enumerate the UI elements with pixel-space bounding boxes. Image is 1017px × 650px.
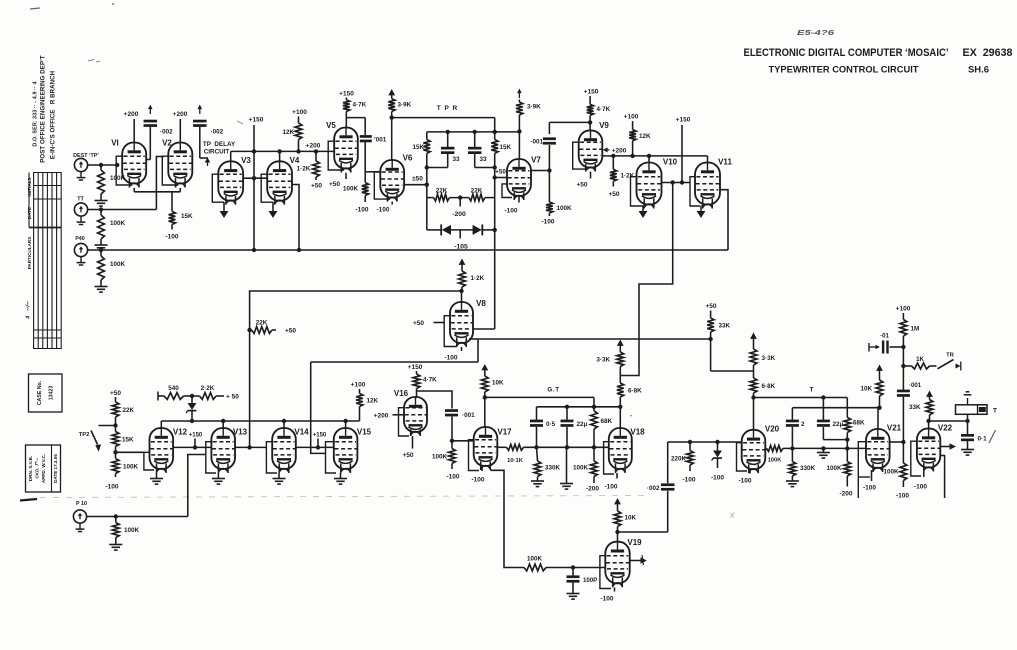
svg-text:T: T: [810, 387, 814, 394]
wire: anode rail V3 V4 to V5 grid (+200): [231, 149, 335, 161]
ground (P10 terminal): [0, 0, 1, 1]
wire: V3-V4 grid couple: [243, 177, 267, 179]
wire: V12-V15 anode rail: [161, 419, 359, 428]
svg-text:100K: 100K: [768, 458, 783, 464]
capacitor -001 (V7/V9 coupling): [530, 122, 556, 170]
svg-text:TR: TR: [946, 353, 955, 359]
tube V12: [150, 428, 188, 474]
svg-text:1K: 1K: [916, 356, 924, 363]
svg-text:-100: -100: [600, 596, 613, 603]
svg-text:3·9K: 3·9K: [527, 104, 541, 111]
svg-text:V5: V5: [326, 121, 336, 130]
capacitor -002 (V1 anode decoupling): [144, 105, 174, 160]
svg-text:540: 540: [168, 385, 179, 392]
svg-text:15K: 15K: [500, 144, 512, 151]
resistor 100K (T ladder to -200): [826, 448, 852, 497]
grid bracket V4: [261, 174, 273, 202]
svg-text:100K: 100K: [110, 220, 126, 227]
svg-text:100K: 100K: [123, 464, 139, 471]
wire: V11 output down to P40 bus: [720, 190, 728, 250]
label -100 (V21 cathode): [863, 470, 876, 492]
capacitor 2 (T ladder): [786, 408, 805, 449]
label -100 (V22 cathode): [914, 472, 927, 491]
TPR bottom rail with diodes: [427, 228, 497, 239]
resistor 12K (from +100, V15 anode rail): [351, 382, 379, 422]
svg-text:1·2K: 1·2K: [297, 166, 311, 173]
svg-text:+200: +200: [173, 111, 188, 118]
svg-text:100K: 100K: [432, 454, 448, 461]
svg-text:+50: +50: [413, 320, 424, 327]
svg-text:CASE No.: CASE No.: [37, 380, 43, 405]
resistor 1M: [900, 320, 919, 348]
ground (V12 cathode): [150, 473, 163, 484]
svg-text:4·7K: 4·7K: [353, 102, 367, 109]
svg-text:D.O. SER. 333 ·· - 4.9 ·· 4: D.O. SER. 333 ·· - 4.9 ·· 4: [33, 81, 39, 146]
resistor 6-8K (right divider): [750, 371, 776, 400]
ground arrow (V10 cathode): [639, 206, 648, 219]
label G.T: [547, 387, 559, 394]
ground (22u return): [560, 484, 573, 490]
svg-text:±50: ±50: [412, 176, 423, 183]
svg-text:CKD. 𝑇′′∼: CKD. 𝑇′′∼: [35, 458, 40, 479]
resistor 4-7K (V5 anode): [339, 91, 366, 118]
svg-text:’001: ’001: [374, 137, 387, 144]
resistor 4-7K (V9 anode): [584, 89, 611, 131]
svg-text:V2: V2: [162, 139, 172, 148]
svg-text:+50: +50: [311, 183, 322, 190]
resistor 22K to +50 (tap): [247, 320, 296, 335]
svg-text:·002: ·002: [160, 129, 173, 136]
svg-text:P40: P40: [75, 236, 85, 242]
label -100 (15K return): [165, 234, 178, 241]
grid bracket V18: [604, 442, 614, 474]
diode (pulse clamp): [186, 396, 196, 421]
svg-text:-100: -100: [165, 234, 178, 241]
svg-text:-100: -100: [863, 485, 876, 492]
label -100 (V20 cathode): [738, 470, 751, 485]
label -105 (TPR return): [454, 244, 468, 251]
svg-text:10K: 10K: [625, 515, 637, 522]
svg-text:+100: +100: [896, 306, 911, 313]
tube V7: [507, 156, 541, 201]
label +200 (interstage): [306, 143, 321, 150]
grid bracket V10: [631, 177, 644, 206]
output arrow (V19): [630, 555, 647, 565]
svg-text:G.T: G.T: [547, 387, 559, 394]
svg-text:+150: +150: [313, 433, 327, 439]
svg-text:-100: -100: [682, 477, 695, 484]
tube V19: [605, 538, 642, 587]
svg-text:V15: V15: [357, 428, 372, 437]
resistor 1K and switch TR: [901, 353, 961, 371]
svg-text:CIRCUIT: CIRCUIT: [204, 149, 230, 156]
resistor 100K (P40 load): [98, 250, 126, 286]
svg-text:V17: V17: [497, 428, 512, 437]
svg-text:10·1K: 10·1K: [507, 458, 524, 464]
label +200 with arrow (V9 grid): [603, 147, 627, 154]
svg-text:V13: V13: [233, 428, 248, 437]
label -100 (V8 cathode): [444, 347, 461, 362]
capacitor 22u (G.T): [561, 407, 588, 448]
svg-text:VI: VI: [111, 139, 119, 148]
grid bracket V7: [502, 184, 512, 198]
svg-text:TP DELAY: TP DELAY: [203, 141, 236, 148]
svg-text:+50: +50: [402, 452, 413, 459]
svg-text:+50: +50: [495, 169, 506, 176]
wire: TT input to V2 grid: [88, 157, 164, 212]
tube V1: [111, 139, 146, 188]
svg-text:100K: 100K: [527, 556, 543, 563]
svg-text:2·2K: 2·2K: [201, 385, 215, 392]
svg-text:APPD. W.V.C.: APPD. W.V.C.: [41, 454, 46, 483]
TPR left rail: [426, 132, 428, 230]
svg-text:12K: 12K: [282, 129, 294, 136]
diode (V20 grid clamp): [711, 442, 724, 482]
ground (V13 cathode): [212, 473, 225, 484]
resistor 15K (V1/V2 cathode): [169, 211, 193, 229]
grid bracket V12: [144, 452, 154, 470]
label: TP DELAY CIRCUIT with arrow: [203, 141, 236, 166]
resistor 1-2K (V9 output divider): [608, 156, 634, 198]
svg-text:+150: +150: [249, 117, 264, 124]
svg-text:·002: ·002: [647, 485, 660, 492]
tube V14: [272, 428, 309, 474]
svg-text:33: 33: [480, 156, 488, 163]
label -100 (V6 cathode): [376, 202, 392, 214]
wire: V20 anode rail east: [754, 395, 848, 399]
svg-text:-100: -100: [738, 478, 751, 485]
grid bracket V14: [266, 442, 277, 473]
wire: V20-V21 grid line with series resistor: [765, 445, 866, 463]
grid bracket V9: [573, 142, 589, 169]
svg-text:+200: +200: [374, 412, 389, 419]
wire: DEST input to V1 grid: [88, 163, 120, 167]
resistor 100K (V17 grid leak): [432, 449, 460, 481]
svg-text:+100: +100: [292, 109, 307, 116]
svg-text:4 ∼𝑓∼: 4 ∼𝑓∼: [26, 301, 32, 320]
svg-text:V9: V9: [599, 121, 609, 130]
grid bracket V1: [116, 156, 132, 185]
svg-text:TYPEWRITER CONTROL CIRCUIT: TYPEWRITER CONTROL CIRCUIT: [769, 65, 920, 75]
wire: V10 output down to 3-3K node: [620, 183, 672, 376]
capacitor 22u (T ladder): [817, 398, 847, 440]
svg-text:-200: -200: [452, 211, 466, 218]
svg-text:V19: V19: [627, 538, 642, 547]
title: main title text: [744, 47, 1013, 59]
resistor 100K (DEST load): [98, 165, 126, 200]
wire: V21 grid stub: [890, 440, 906, 444]
wire: V22 anode lead: [928, 421, 930, 429]
svg-text:+150: +150: [408, 364, 423, 371]
grid bracket V11: [690, 177, 700, 206]
svg-text:10K: 10K: [492, 380, 504, 387]
svg-text:V22: V22: [938, 424, 953, 433]
svg-text:+200: +200: [124, 111, 139, 118]
svg-text:+50: +50: [329, 181, 340, 188]
svg-text:INITIALS: INITIALS: [27, 177, 32, 196]
terminal DEST 'TP': [73, 153, 99, 180]
svg-text:15K: 15K: [412, 144, 424, 151]
svg-text:-100: -100: [541, 219, 554, 226]
resistor 100K (V7 grid leak): [541, 171, 572, 226]
capacitor -002 (V19-V20 coupling): [647, 483, 675, 492]
resistor 15K (TPR left): [412, 140, 430, 154]
svg-text:TT: TT: [77, 197, 84, 203]
label +50 (V16 cathode): [402, 436, 413, 459]
revision table header: DATE (rotated): [27, 207, 32, 219]
resistor 100K (TT load): [98, 210, 126, 245]
svg-text:V6: V6: [403, 154, 413, 163]
title: drawing number handwritten: [797, 28, 835, 37]
capacitor 100P (V19 grid): [567, 568, 598, 594]
revision table header: PARTICULARS (rotated): [27, 237, 32, 270]
drawing office box (DRN/CKD/APPD/DATE): [26, 445, 61, 492]
ground (V14 cathode): [273, 473, 286, 484]
resistor 3-3K (left divider): [596, 340, 623, 376]
capacitor '001 (V5-V6 coupling): [360, 135, 387, 143]
margin note: E-IN-C'S OFFICE R BRANCH (rotated): [50, 71, 57, 159]
grid bracket V19: [600, 556, 611, 589]
svg-text:+50: +50: [705, 303, 716, 310]
wire: TP2 node to V12 grid: [116, 451, 144, 453]
label TPR: [437, 105, 459, 112]
capacitor 33 (TPR right): [468, 132, 497, 170]
svg-text:+200: +200: [612, 147, 627, 154]
wire: V4 output down to P40 bus: [292, 185, 300, 251]
capacitor 33 (TPR left): [425, 132, 460, 170]
svg-text:-100: -100: [914, 484, 927, 491]
resistor 3-9K (V6 anode): [388, 89, 411, 160]
wire: coupling node to V6 grid: [365, 142, 380, 183]
resistor 100K (V6 grid leak): [343, 183, 369, 214]
resistor 6-8K (left divider): [617, 376, 642, 429]
svg-text:100K: 100K: [124, 527, 140, 534]
svg-text:22K: 22K: [436, 187, 448, 194]
svg-text:-100: -100: [711, 475, 724, 482]
switch TP2: [79, 426, 116, 452]
supply +200 (V1 anode): [124, 111, 139, 143]
resistor 10K (V19 anode): [614, 498, 636, 542]
svg-text:22K: 22K: [471, 187, 483, 194]
wire: V7 grid to coupling node: [531, 168, 552, 172]
tube V8: [450, 299, 486, 347]
wire: V17 anode lead and G.T rail: [483, 395, 594, 427]
resistor 100K (TP2 chain): [105, 452, 138, 490]
wire +50 into V8 grid: [413, 320, 444, 327]
svg-text:ELECTRONIC DIGITAL COMPUTER ‘M: ELECTRONIC DIGITAL COMPUTER ‘MOSAIC’: [744, 47, 949, 59]
resistor 22K (TPR left arm): [427, 187, 450, 201]
svg-text:SH.6: SH.6: [968, 65, 989, 75]
stray pencil mark: [731, 513, 735, 519]
svg-text:-200: -200: [586, 486, 599, 493]
grid bracket V3: [212, 174, 224, 202]
svg-text:+150: +150: [676, 117, 691, 124]
svg-text:15K: 15K: [122, 437, 134, 444]
resistor 68K (G.T): [591, 407, 613, 448]
svg-text:+50: +50: [285, 328, 296, 335]
svg-text:T: T: [993, 408, 997, 415]
svg-text:-100: -100: [471, 477, 484, 484]
label +50 (V9 cathode): [576, 172, 590, 189]
svg-text:+100: +100: [624, 114, 639, 121]
svg-text:-100: -100: [105, 484, 118, 491]
resistor 22K (TPR right arm): [450, 187, 495, 206]
resistor 15K (TP2 chain): [112, 426, 134, 455]
label +50 (V5 cathode): [329, 173, 346, 188]
svg-text:-100: -100: [376, 207, 389, 214]
svg-text:12K: 12K: [639, 133, 651, 140]
wire: V19 anode to coupling cap: [618, 491, 668, 532]
svg-text:100K: 100K: [557, 205, 573, 212]
resistor 68K (T ladder): [844, 398, 865, 449]
svg-text:-100: -100: [604, 484, 617, 491]
svg-text:V14: V14: [294, 428, 309, 437]
svg-text:330K: 330K: [800, 465, 816, 472]
svg-text:·001: ·001: [909, 382, 922, 389]
svg-text:DEST ‘TP’: DEST ‘TP’: [73, 153, 99, 159]
svg-text:22μ: 22μ: [577, 421, 588, 428]
svg-text:1M: 1M: [911, 326, 920, 333]
supply +200 (V2 anode): [173, 111, 188, 143]
ground (100P): [567, 594, 580, 600]
svg-text:33: 33: [453, 156, 461, 163]
svg-text:0·1: 0·1: [978, 436, 988, 443]
svg-text:V11: V11: [718, 158, 732, 167]
delay line T box: [956, 405, 998, 421]
tube V6: [380, 154, 413, 202]
svg-text:-100: -100: [444, 355, 457, 362]
tube V9: [579, 121, 610, 172]
svg-text:V18: V18: [630, 428, 645, 437]
resistor 220K (V20 grid leak): [671, 442, 696, 484]
paper crease line: [20, 496, 648, 501]
grid bracket V22: [911, 441, 921, 476]
wire: P10 to V13 grid: [87, 455, 206, 519]
tube V13: [211, 428, 247, 474]
resistor 4-7K (V16 anode): [408, 364, 437, 397]
ground (TT load): [95, 245, 108, 251]
label -100 (V19 cathode): [600, 588, 614, 603]
svg-text:+150: +150: [339, 91, 354, 98]
svg-text:100K: 100K: [573, 465, 589, 472]
tube V17: [474, 427, 512, 470]
pencil slash mark: [989, 430, 996, 443]
resistor 1-2K (V5 grid leak): [297, 151, 323, 189]
svg-text:V12: V12: [173, 428, 188, 437]
resistor 10K (V21 anode): [860, 365, 882, 408]
capacitor -001 (V21 anode): [897, 347, 922, 442]
svg-text:100K: 100K: [883, 469, 899, 476]
wire: V17-V18 grid line with series resistor: [497, 444, 609, 464]
svg-text:EX 29638: EX 29638: [963, 47, 1013, 59]
resistor 33K (from +50): [705, 303, 730, 339]
svg-text:22K: 22K: [123, 407, 135, 414]
svg-text:V7: V7: [531, 156, 541, 165]
grid bracket V17: [469, 440, 480, 471]
wire: 22u return to ground: [566, 447, 568, 483]
terminal P10: [73, 501, 87, 532]
wire: V9 output rail to V10/V11 anodes: [602, 154, 707, 158]
diode (TPR right, pointing right): [473, 224, 483, 235]
svg-text:·001: ·001: [530, 139, 543, 146]
resistor 3-3K (right divider): [750, 333, 776, 372]
resistor 540 (pulse network): [158, 385, 200, 401]
grid bracket V13: [206, 442, 216, 473]
case number box: [29, 374, 63, 412]
revision table grid: [29, 172, 61, 349]
terminal TT: [74, 197, 87, 225]
wire: V8 anode lead: [461, 291, 463, 302]
resistor 330K (T ladder to ground): [789, 448, 816, 480]
svg-text:V10: V10: [663, 158, 678, 167]
svg-text:68K: 68K: [601, 418, 613, 425]
label -100 (V18 cathode): [604, 473, 617, 491]
revision table header: INITIALS (rotated): [27, 177, 32, 196]
svg-text:-100: -100: [504, 208, 517, 215]
svg-text:E5-4?6: E5-4?6: [797, 28, 835, 37]
wire: V6 output to TPR left rail: [404, 183, 429, 187]
wire: V5 anode node to coupling cap: [346, 118, 365, 136]
svg-text:+150: +150: [584, 89, 599, 96]
ground arrow (V4 cathode): [269, 202, 278, 218]
margin note: POST OFFICE ENGINEERING DEPT (rotated): [40, 55, 47, 163]
grid bracket V20: [737, 443, 748, 471]
svg-text:15K: 15K: [181, 213, 193, 220]
svg-text:-100: -100: [355, 207, 368, 214]
wire: branch down to V15 grid: [311, 362, 326, 453]
svg-text:100P: 100P: [583, 577, 597, 584]
wire: coupling top to V9 anode: [549, 121, 590, 123]
wire: +50 into V7 from TPR rail: [493, 169, 508, 180]
svg-text:-200: -200: [839, 491, 852, 498]
tube V10: [637, 158, 678, 209]
svg-text:·002: ·002: [211, 129, 224, 136]
margin note: issue number (rotated): [26, 301, 32, 320]
svg-text:22K: 22K: [256, 320, 268, 327]
grid bracket V21: [858, 442, 870, 498]
ground arrow (V3 cathode): [220, 202, 229, 218]
svg-text:68K: 68K: [853, 420, 865, 427]
wire: V14-V15 grid couple with +150 tap: [296, 433, 334, 450]
svg-text:10K: 10K: [860, 386, 872, 393]
capacitor 0-1 (output): [961, 421, 987, 449]
tube V2: [162, 139, 192, 188]
svg-text:+150: +150: [189, 433, 203, 439]
wire: coupling cap up to V20 grid line: [668, 440, 743, 483]
wire: G.T ladder top rail: [537, 405, 621, 409]
terminal P40: [74, 236, 87, 265]
label T (rail): [810, 387, 814, 394]
wire: V16 anode to coupling cap: [417, 391, 453, 409]
tube V15: [334, 428, 372, 474]
svg-text:22μ: 22μ: [833, 421, 844, 428]
wire: V10-V11 grid couple: [662, 180, 691, 184]
grid bracket V8: [444, 316, 457, 347]
tube V21: [866, 424, 902, 473]
svg-text:100K: 100K: [343, 186, 359, 193]
svg-text:P 10: P 10: [76, 501, 87, 507]
grid bracket V16: [399, 408, 410, 436]
svg-text:-100: -100: [896, 493, 909, 500]
resistor 2-2K (pulse network): [200, 385, 240, 401]
wire: T ladder top rail: [792, 406, 881, 410]
wire: coupling node to V17 grid: [450, 417, 474, 449]
ground arrow (V11 cathode): [697, 206, 706, 219]
wire: P40 bus: [88, 248, 728, 252]
svg-text:2: 2: [801, 421, 805, 428]
resistor 3-9K (V7 anode): [516, 89, 541, 160]
svg-text:·001: ·001: [462, 412, 475, 419]
